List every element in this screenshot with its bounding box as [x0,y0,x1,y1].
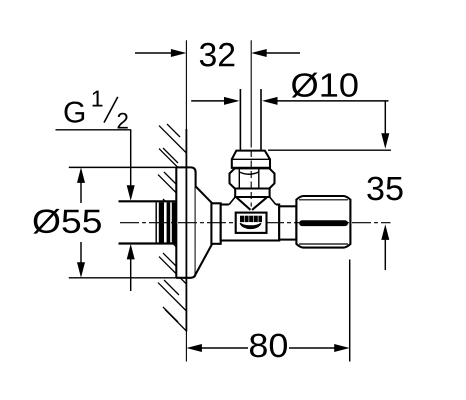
seat V mark [236,197,250,210]
dim 32: dimension line right part [265,52,300,54]
bonnet neck (right of body) [279,206,296,239]
dim 35: lower arrowhead (up) [381,224,389,240]
horizontal centerline [120,222,391,224]
dim 35: top reference line [268,149,391,151]
dim 32: left arrowhead [171,49,187,57]
dim O10: leader underline [276,100,389,102]
handle grip band [299,220,348,226]
dim 32: text [200,43,235,67]
vertical centerline through fitting (dash) [250,150,252,207]
valve body [221,205,280,241]
disc back edge [175,167,177,277]
dim O55: bottom extension line [69,277,177,279]
dim 32: dimension line left part [135,52,173,54]
vertical centerline / 32 right extension [250,40,252,147]
dim O55: text [33,209,101,234]
dim 80: right extension line [349,260,351,362]
dim O55: top extension line [69,166,177,168]
G1/2 leader vertical + arrow down [130,130,132,187]
extension line above wall (32 dim left) [185,40,187,129]
dim 35: upper arrow stem [384,101,386,135]
extension line below wall (80 dim left) [185,332,187,362]
escutcheon cone [196,186,213,274]
dim 35: text [367,177,402,201]
dim O10: left arrowhead [224,97,240,105]
dim 80: right arrowhead (points right) [334,344,350,352]
dim 35: lower arrow stem [384,239,386,271]
thread groove bars [159,202,164,242]
GROHE logo box [236,213,267,233]
compression nut [230,168,275,188]
riser pipe walls (O10) [240,89,261,150]
wall hatching [158,124,186,331]
dim 35: upper arrowhead (down) [381,133,389,149]
cone tip ring [211,203,220,244]
outlet neck below nut [234,189,270,198]
dim O10: right arrowhead [262,97,278,105]
inlet thread pipe G1/2 [119,201,177,243]
label G 1/2 [56,91,135,291]
dim O10: left arrow tail [191,100,225,102]
compression sleeve (top trapezoid) [232,151,270,168]
wall line [185,129,187,332]
dim O10: text [292,73,358,98]
G1/2 leader underline [56,129,132,131]
dim O55: lower arrowhead (down) [77,262,85,278]
handle [296,196,350,248]
dim O55: upper arrowhead (up) [77,167,85,183]
dim 80: text [250,334,287,358]
dim 32: right arrowhead [251,49,267,57]
dim 80: left arrowhead (points left) [186,344,202,352]
dim 80: dimension line [200,347,248,349]
G1/2 lower arrow (up) [127,244,135,260]
escutcheon disc [176,167,195,278]
outlet funnel (body top transition) [228,197,276,210]
